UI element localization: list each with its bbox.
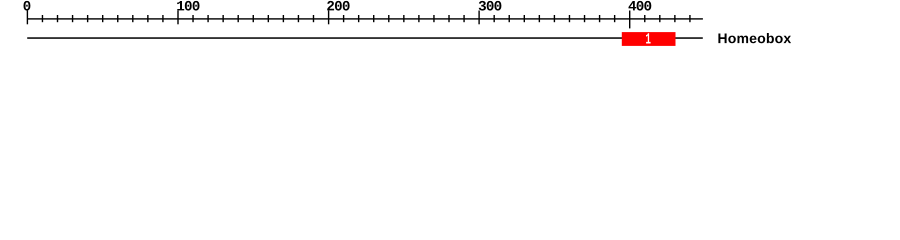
ruler label 300 — [479, 1, 502, 11]
ruler major tick 0 — [27, 11, 28, 25]
ruler major tick 100 — [177, 11, 178, 25]
domain name label Homeobox — [718, 33, 791, 43]
ruler axis line — [27, 18, 703, 19]
domain number 1 (white) — [646, 33, 651, 43]
ruler label 0 — [24, 1, 31, 11]
ruler label 200 — [327, 1, 349, 11]
ruler major tick 400 extended down to domain — [629, 11, 630, 29]
sequence line — [27, 37, 703, 39]
domain box 1 (Homeobox, red) — [622, 32, 676, 46]
ruler major tick 300 — [478, 11, 479, 25]
background — [0, 0, 900, 58]
ruler label 400 — [629, 1, 652, 11]
ruler minor ticks — [42, 15, 691, 22]
ruler label 100 — [177, 1, 199, 11]
ruler major tick 200 — [328, 11, 329, 25]
